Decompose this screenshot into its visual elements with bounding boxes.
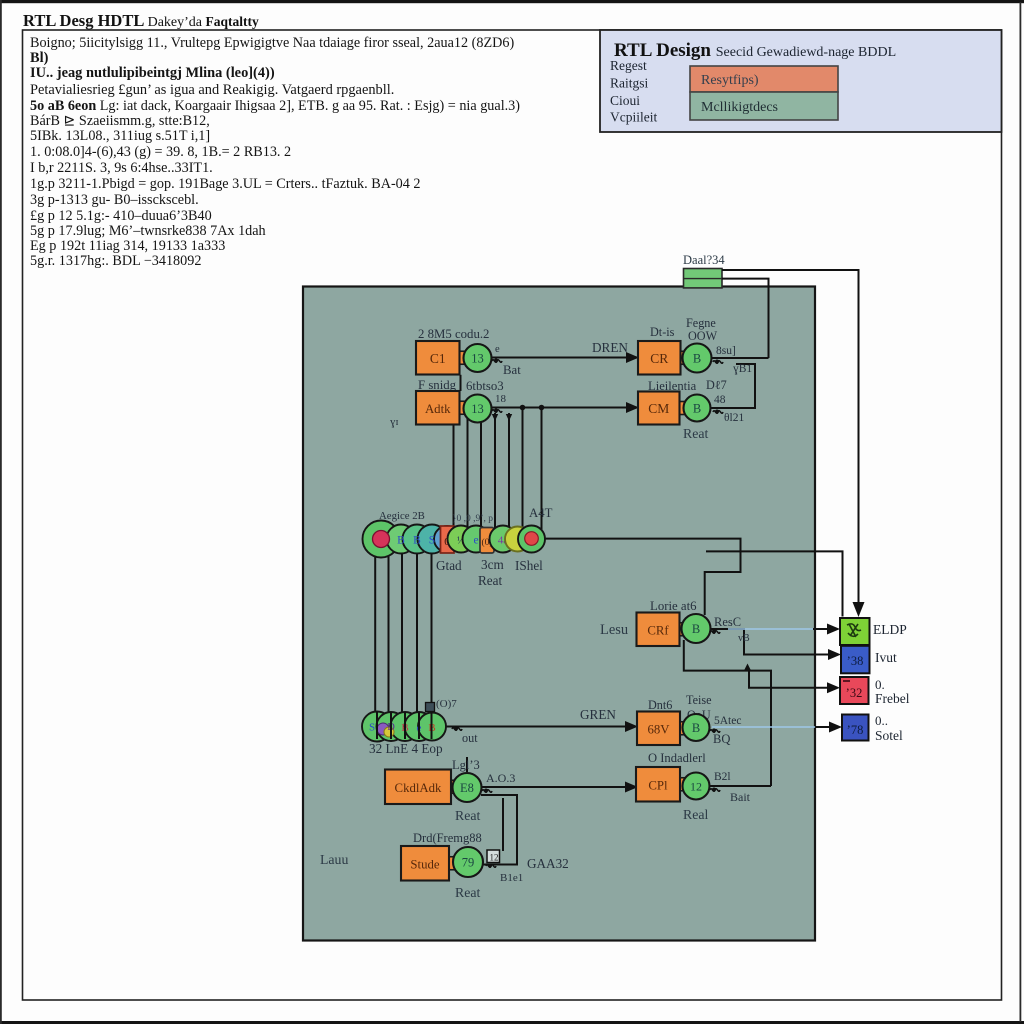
svg-text:Cioui: Cioui [610, 93, 640, 108]
svg-text:8su]: 8su] [716, 345, 736, 357]
svg-text:6tbtso3: 6tbtso3 [466, 379, 504, 393]
svg-text:vB: vB [738, 633, 750, 644]
svg-text:CR: CR [650, 351, 668, 366]
svg-text:GREN: GREN [580, 707, 616, 722]
svg-text:A.O.3: A.O.3 [486, 771, 515, 785]
svg-text:Reat: Reat [478, 573, 503, 588]
svg-text:B: B [693, 402, 701, 416]
svg-text:Real: Real [683, 807, 708, 822]
svg-text:IShel: IShel [515, 558, 543, 573]
svg-text:48: 48 [714, 394, 726, 406]
svg-text:e: e [495, 344, 500, 355]
svg-text:out: out [462, 731, 478, 745]
svg-text:}0 ,0 ,9’, p: }0 ,0 ,9’, p [452, 514, 493, 524]
svg-text:5IBk. 13L08., 311iug s.51T i,1: 5IBk. 13L08., 311iug s.51T i,1] [30, 128, 210, 144]
svg-text:B: B [692, 622, 700, 636]
svg-text:32 LnE 4 Eop: 32 LnE 4 Eop [369, 741, 443, 756]
svg-text:Mcllikigtdecs: Mcllikigtdecs [701, 100, 778, 115]
svg-text:Lesu: Lesu [600, 622, 628, 638]
svg-text:18: 18 [495, 393, 507, 405]
svg-text:B2l: B2l [714, 771, 731, 783]
svg-text:I b,r 2211S. 3, 9s 6:4hse..33I: I b,r 2211S. 3, 9s 6:4hse..33IT1. [30, 160, 213, 176]
svg-text:CM: CM [648, 401, 669, 416]
svg-text:S: S [369, 722, 375, 734]
svg-text:Petavialiesrieg £gun’ as igua: Petavialiesrieg £gun’ as igua and Reakig… [30, 82, 394, 98]
svg-text:IU.. jeag nutlulipibeintgj Mli: IU.. jeag nutlulipibeintgj Mlina (leo](4… [30, 65, 275, 81]
svg-text:13: 13 [471, 402, 484, 416]
svg-text:Eg p 192t 11iag 314, 19133 1a3: Eg p 192t 11iag 314, 19133 1a333 [30, 238, 225, 254]
svg-text:Resytfips): Resytfips) [701, 73, 759, 88]
svg-text:ResC: ResC [714, 615, 741, 629]
svg-text:A4T: A4T [529, 506, 553, 520]
svg-text:ELDP: ELDP [873, 622, 907, 637]
svg-text:(O)7: (O)7 [436, 698, 457, 710]
svg-text:79: 79 [462, 856, 475, 870]
svg-text:12: 12 [490, 853, 499, 863]
svg-text:DREN: DREN [592, 340, 628, 355]
svg-text:0.: 0. [875, 677, 885, 692]
svg-text:3g p-1313 gu- B0–issckscebl.: 3g p-1313 gu- B0–issckscebl. [30, 192, 199, 208]
svg-text:£g p 12 5.1g:- 410–duua6’3B40: £g p 12 5.1g:- 410–duua6’3B40 [30, 208, 212, 224]
svg-text:BQ: BQ [713, 732, 730, 746]
svg-text:Boigno; 5iicitylsigg 11., Vrul: Boigno; 5iicitylsigg 11., Vrultepg Epwig… [30, 35, 514, 51]
svg-text:Lgl’3: Lgl’3 [452, 758, 480, 772]
svg-text:2 8M5 codu.2: 2 8M5 codu.2 [418, 327, 489, 341]
svg-text:E8: E8 [460, 781, 474, 795]
svg-text:Reat: Reat [683, 426, 708, 441]
svg-text:Lorie at6: Lorie at6 [650, 599, 697, 613]
svg-text:Drd(Fremg88: Drd(Fremg88 [413, 831, 482, 845]
svg-text:CkdlAdk: CkdlAdk [395, 781, 443, 795]
svg-text:F snidg: F snidg [418, 378, 457, 392]
svg-text:68V: 68V [647, 722, 670, 736]
svg-text:Aegice 2B: Aegice 2B [379, 510, 425, 522]
svg-text:’38: ’38 [847, 654, 864, 668]
svg-text:B1e1: B1e1 [500, 872, 523, 884]
svg-text:RTL Desg HDTL Dakey’da Faqtalt: RTL Desg HDTL Dakey’da Faqtaltty [23, 11, 259, 30]
svg-text:CRf: CRf [647, 623, 669, 637]
svg-text:CPl: CPl [648, 778, 668, 792]
svg-text:0..: 0.. [875, 713, 888, 728]
svg-text:3cm: 3cm [481, 557, 504, 572]
svg-text:5g.r. 1317hg:. BDL −3418092: 5g.r. 1317hg:. BDL −3418092 [30, 253, 201, 269]
svg-text:Stude: Stude [410, 857, 439, 871]
svg-text:OOW: OOW [688, 329, 718, 343]
svg-text:Ivut: Ivut [875, 650, 897, 665]
svg-text:Bl): Bl) [30, 50, 49, 66]
svg-text:Reat: Reat [455, 885, 480, 900]
svg-text:C1: C1 [430, 351, 446, 366]
svg-text:Vcpiileit: Vcpiileit [610, 110, 657, 125]
svg-text:Sotel: Sotel [875, 728, 903, 743]
svg-text:Regest: Regest [610, 58, 647, 73]
svg-text:Raitgsi: Raitgsi [610, 76, 649, 91]
svg-text:12: 12 [690, 780, 702, 794]
svg-text:ɣB1: ɣB1 [733, 363, 752, 375]
svg-text:BárB ⊵ Szaeiismm.g, stte:B12,: BárB ⊵ Szaeiismm.g, stte:B12, [30, 113, 210, 129]
svg-text:1g.p 3211-1.Pbigd = gop. 191Ba: 1g.p 3211-1.Pbigd = gop. 191Bage 3.UL = … [30, 176, 421, 192]
svg-text:Reat: Reat [455, 808, 480, 823]
svg-text:B: B [693, 352, 701, 366]
svg-text:Lauu: Lauu [320, 852, 348, 867]
svg-text:GAA32: GAA32 [527, 856, 569, 871]
svg-text:1. 0:08.0]4-(6),43 (g) = 39. 8: 1. 0:08.0]4-(6),43 (g) = 39. 8, 1B.= 2 R… [30, 144, 291, 160]
svg-text:Bait: Bait [730, 790, 751, 804]
svg-text:Daal?34: Daal?34 [683, 253, 725, 267]
svg-text:5o aB 6eon Lg: iat dack, Koarg: 5o aB 6eon Lg: iat dack, Koargaair Ihigs… [30, 98, 520, 114]
svg-text:ɣɪ: ɣɪ [390, 416, 399, 428]
svg-text:Dℓ7: Dℓ7 [706, 378, 727, 392]
svg-text:Teise: Teise [686, 693, 712, 707]
svg-text:13: 13 [471, 352, 484, 366]
svg-text:Dt-is: Dt-is [650, 325, 675, 339]
svg-text:Adtk: Adtk [425, 402, 451, 416]
svg-text:B: B [413, 535, 421, 547]
svg-text:Frebel: Frebel [875, 691, 910, 706]
svg-text:B: B [397, 535, 405, 547]
svg-text:Dnt6: Dnt6 [648, 698, 672, 712]
svg-text:5Atec: 5Atec [714, 715, 741, 727]
svg-text:’78: ’78 [847, 723, 864, 737]
svg-text:S: S [429, 535, 435, 547]
svg-text:O Indadlerl: O Indadlerl [648, 751, 706, 765]
svg-text:Bat: Bat [503, 363, 521, 377]
svg-text:B: B [692, 721, 700, 735]
svg-text:θl21: θl21 [724, 412, 744, 424]
svg-text:5g p 17.9lug; M6’–twnsrke838 7: 5g p 17.9lug; M6’–twnsrke838 7Ax 1dah [30, 223, 266, 239]
svg-text:e: e [473, 535, 478, 547]
svg-text:’32: ’32 [846, 686, 863, 700]
svg-text:Fegne: Fegne [686, 316, 716, 330]
svg-text:Gtad: Gtad [436, 558, 462, 573]
